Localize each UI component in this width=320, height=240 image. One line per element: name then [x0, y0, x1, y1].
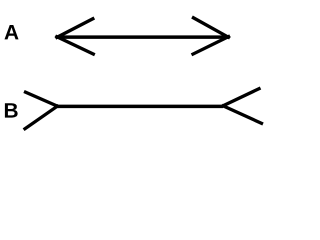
label B — [5, 103, 18, 117]
wire line A left arrowhead lower barb — [55, 36, 95, 55]
wire line B right fin lower — [222, 105, 263, 124]
wire line A left arrowhead upper barb — [55, 18, 94, 38]
wire line A shaft — [58, 35, 229, 39]
wire line B shaft — [57, 105, 223, 109]
wire line A right arrowhead upper barb — [192, 17, 230, 38]
wire line A right arrowhead lower barb — [192, 36, 231, 55]
wire line B left fin lower — [24, 105, 59, 129]
wire line B right fin upper — [222, 88, 261, 106]
wire line B left fin upper — [24, 92, 59, 107]
label A — [5, 25, 19, 39]
